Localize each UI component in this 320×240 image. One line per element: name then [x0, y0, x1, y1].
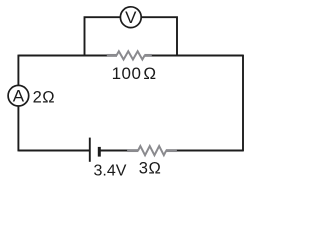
svg-text:A: A: [13, 87, 25, 106]
svg-text:2Ω: 2Ω: [33, 89, 56, 107]
svg-text:3Ω: 3Ω: [139, 160, 162, 178]
svg-text:100 Ω: 100 Ω: [112, 64, 157, 83]
svg-text:3.4V: 3.4V: [94, 162, 127, 179]
svg-text:V: V: [125, 8, 137, 27]
